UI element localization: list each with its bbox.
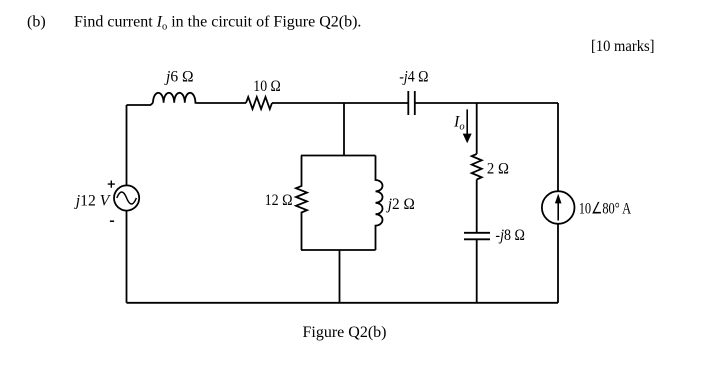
svg-text:j2 Ω: j2 Ω xyxy=(386,196,415,213)
svg-text:10 Ω: 10 Ω xyxy=(253,78,281,95)
svg-text:j6 Ω: j6 Ω xyxy=(164,69,194,86)
wire right edge bottom segment xyxy=(557,224,559,303)
node A: middle branch top wire xyxy=(343,103,345,156)
svg-text:[10 marks]: [10 marks] xyxy=(591,38,655,55)
svg-text:Figure Q2(b): Figure Q2(b) xyxy=(303,324,387,341)
svg-text:(b): (b) xyxy=(27,14,46,31)
capacitor -j4 plates xyxy=(408,91,415,115)
svg-text:2 Ω: 2 Ω xyxy=(487,160,509,177)
wire resistor 2ohm to capacitor -j8 xyxy=(476,180,478,233)
resistor 10 ohm xyxy=(246,97,272,109)
wire bottom xyxy=(127,302,559,304)
svg-text:-j8 Ω: -j8 Ω xyxy=(495,227,525,244)
inductor j6 xyxy=(153,93,197,103)
wire capacitor -j8 to bottom xyxy=(476,239,478,302)
wire below parallel box xyxy=(339,250,341,303)
wire capacitor to top-right corner xyxy=(415,102,558,104)
svg-text:12 Ω: 12 Ω xyxy=(265,192,293,209)
capacitor -j8 plates xyxy=(464,233,490,240)
svg-text:-j4 Ω: -j4 Ω xyxy=(399,69,428,86)
wire left edge bottom segment xyxy=(126,211,128,303)
voltage source V1 circle xyxy=(114,185,139,210)
parallel box top edge xyxy=(301,155,376,157)
svg-text:Io: Io xyxy=(453,114,465,133)
wire top-left horizontal segment xyxy=(127,103,154,105)
wire right edge top segment xyxy=(557,103,559,191)
current source I1 arrow xyxy=(555,194,562,221)
svg-text:Find current Io in the circuit: Find current Io in the circuit of Figure… xyxy=(74,14,361,33)
resistor 2 ohm xyxy=(472,154,482,180)
wire resistor to capacitor -j4 xyxy=(272,102,408,104)
voltage source plus sign xyxy=(108,181,115,188)
current Io arrow xyxy=(463,109,472,143)
voltage source minus sign xyxy=(110,220,114,222)
current source I1 circle xyxy=(542,191,575,224)
voltage source V1 sine xyxy=(117,192,137,204)
svg-text:10∠80° A: 10∠80° A xyxy=(579,200,632,217)
parallel box left edge with resistor 12 ohm xyxy=(296,156,307,251)
wire inductor to resistor R 10ohm xyxy=(197,102,246,104)
svg-text:j12 V: j12 V xyxy=(74,193,112,210)
parallel box bottom edge xyxy=(301,249,376,251)
wire left edge top segment xyxy=(126,105,128,186)
wire right-middle branch top xyxy=(476,103,478,154)
parallel box right edge with inductor j2 xyxy=(376,156,383,251)
